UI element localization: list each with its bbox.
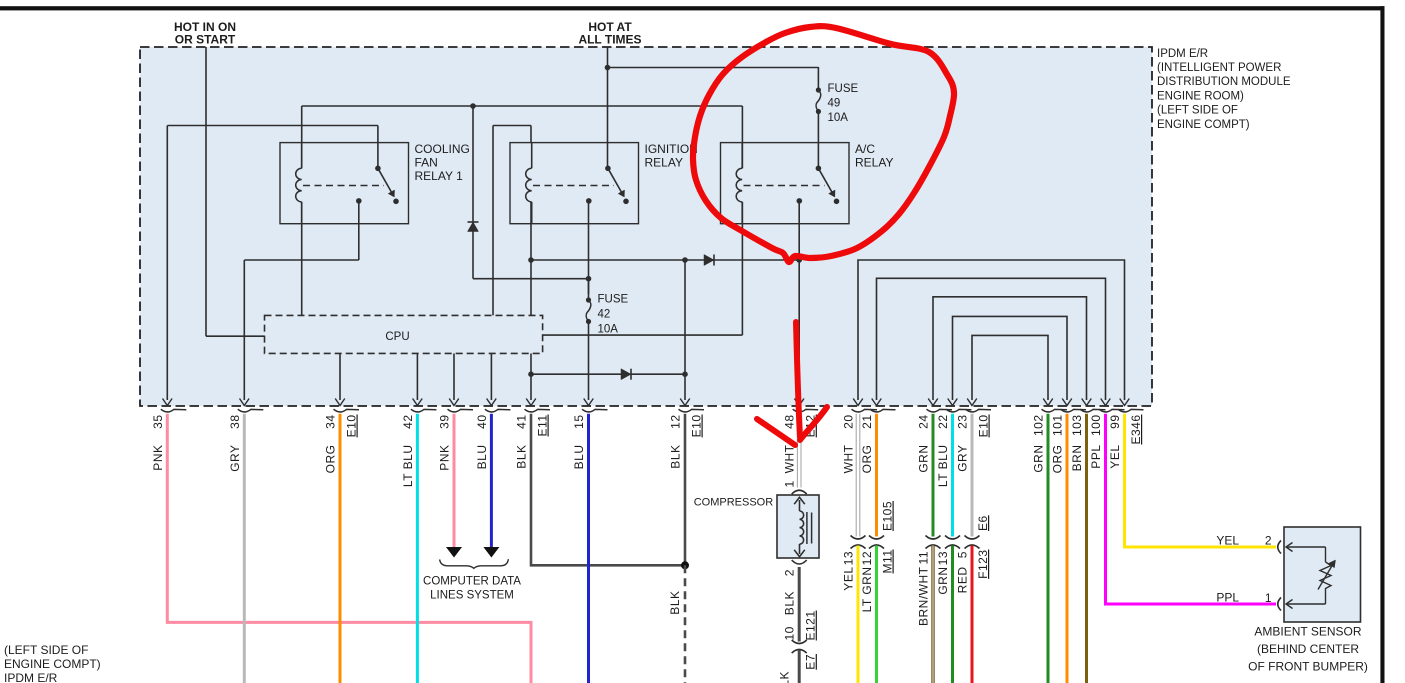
svg-text:YEL: YEL xyxy=(1216,534,1239,548)
svg-text:E11: E11 xyxy=(536,415,550,437)
svg-text:42: 42 xyxy=(401,415,415,429)
svg-text:E10: E10 xyxy=(345,415,359,438)
svg-text:E346: E346 xyxy=(1129,415,1143,445)
svg-text:E10: E10 xyxy=(977,415,991,438)
svg-text:34: 34 xyxy=(324,415,338,429)
svg-text:48: 48 xyxy=(783,415,797,429)
svg-text:GRN: GRN xyxy=(1032,445,1046,473)
svg-text:12: 12 xyxy=(860,551,874,565)
svg-text:10: 10 xyxy=(783,626,797,640)
svg-text:CPU: CPU xyxy=(385,331,409,343)
svg-text:10A: 10A xyxy=(828,112,849,124)
svg-text:RELAY 1: RELAY 1 xyxy=(415,169,464,183)
svg-text:35: 35 xyxy=(151,415,165,429)
svg-text:FUSE: FUSE xyxy=(828,83,859,95)
svg-text:5: 5 xyxy=(956,551,970,558)
svg-text:2: 2 xyxy=(783,569,797,576)
svg-text:DISTRIBUTION MODULE: DISTRIBUTION MODULE xyxy=(1157,76,1291,88)
svg-text:LT GRN: LT GRN xyxy=(860,567,874,613)
svg-text:41: 41 xyxy=(515,415,529,429)
svg-text:E105: E105 xyxy=(881,501,895,531)
svg-text:LT BLU: LT BLU xyxy=(936,445,950,488)
svg-text:23: 23 xyxy=(956,415,970,429)
svg-text:YEL: YEL xyxy=(842,567,856,591)
svg-text:2: 2 xyxy=(1265,534,1272,548)
svg-text:GRY: GRY xyxy=(228,445,242,472)
svg-text:100: 100 xyxy=(1089,415,1103,437)
svg-text:BLU: BLU xyxy=(475,445,489,470)
svg-text:ALL TIMES: ALL TIMES xyxy=(578,33,641,47)
svg-text:GRY: GRY xyxy=(956,445,970,472)
svg-text:F123: F123 xyxy=(976,550,990,579)
svg-text:13: 13 xyxy=(842,551,856,565)
svg-text:ORG: ORG xyxy=(860,445,874,474)
svg-text:ORG: ORG xyxy=(324,445,338,474)
svg-text:FAN: FAN xyxy=(415,156,438,170)
svg-text:21: 21 xyxy=(860,415,874,429)
svg-text:(LEFT SIDE OF: (LEFT SIDE OF xyxy=(4,643,88,657)
svg-text:YEL: YEL xyxy=(1108,445,1122,469)
svg-text:IGNITION: IGNITION xyxy=(645,142,698,156)
svg-text:RELAY: RELAY xyxy=(645,156,683,170)
svg-text:42: 42 xyxy=(598,308,611,320)
svg-text:15: 15 xyxy=(572,415,586,429)
svg-text:FUSE: FUSE xyxy=(598,293,629,305)
svg-text:IPDM E/R: IPDM E/R xyxy=(4,671,58,683)
svg-text:BLK: BLK xyxy=(778,671,792,683)
svg-text:99: 99 xyxy=(1108,415,1122,429)
svg-text:PNK: PNK xyxy=(438,445,452,471)
svg-text:10A: 10A xyxy=(598,323,619,335)
svg-text:ORG: ORG xyxy=(1051,445,1065,474)
svg-text:38: 38 xyxy=(228,415,242,429)
svg-text:PPL: PPL xyxy=(1216,591,1239,605)
svg-text:20: 20 xyxy=(842,415,856,429)
svg-text:GRN: GRN xyxy=(917,445,931,473)
svg-text:PNK: PNK xyxy=(151,445,165,471)
svg-text:WHT: WHT xyxy=(842,444,856,473)
svg-text:E6: E6 xyxy=(976,515,990,531)
svg-text:12: 12 xyxy=(669,415,683,429)
svg-text:(BEHIND CENTER: (BEHIND CENTER xyxy=(1257,642,1359,656)
svg-text:BLK: BLK xyxy=(668,591,682,615)
svg-text:39: 39 xyxy=(438,415,452,429)
svg-text:E10: E10 xyxy=(690,415,704,438)
svg-text:GRN: GRN xyxy=(936,567,950,595)
svg-text:13: 13 xyxy=(936,551,950,565)
svg-text:AMBIENT SENSOR: AMBIENT SENSOR xyxy=(1254,625,1361,639)
svg-text:103: 103 xyxy=(1070,415,1084,437)
svg-text:COMPRESSOR: COMPRESSOR xyxy=(694,496,774,508)
svg-text:22: 22 xyxy=(936,415,950,429)
svg-text:102: 102 xyxy=(1032,415,1046,437)
svg-text:E7: E7 xyxy=(804,654,818,670)
svg-text:COOLING: COOLING xyxy=(415,142,470,156)
svg-text:ENGINE COMPT): ENGINE COMPT) xyxy=(1157,119,1250,131)
svg-text:49: 49 xyxy=(828,98,841,110)
svg-text:BLK: BLK xyxy=(669,445,683,469)
svg-text:(LEFT SIDE OF: (LEFT SIDE OF xyxy=(1157,105,1238,117)
svg-text:ENGINE ROOM): ENGINE ROOM) xyxy=(1157,90,1244,102)
svg-text:A/C: A/C xyxy=(855,142,875,156)
svg-text:ENGINE COMPT): ENGINE COMPT) xyxy=(4,657,101,671)
svg-text:BLU: BLU xyxy=(572,445,586,470)
svg-text:40: 40 xyxy=(475,415,489,429)
svg-text:OF FRONT BUMPER): OF FRONT BUMPER) xyxy=(1248,660,1368,674)
svg-text:E121: E121 xyxy=(804,610,818,640)
svg-text:BRN: BRN xyxy=(1070,445,1084,472)
svg-text:WHT: WHT xyxy=(783,444,797,473)
svg-text:LINES SYSTEM: LINES SYSTEM xyxy=(430,589,514,601)
svg-text:LT BLU: LT BLU xyxy=(401,445,415,488)
svg-text:(INTELLIGENT POWER: (INTELLIGENT POWER xyxy=(1157,62,1281,74)
svg-text:IPDM E/R: IPDM E/R xyxy=(1157,48,1208,60)
svg-text:1: 1 xyxy=(1265,591,1272,605)
svg-text:101: 101 xyxy=(1051,415,1065,437)
svg-text:24: 24 xyxy=(917,415,931,429)
svg-text:BLK: BLK xyxy=(515,445,529,469)
svg-text:COMPUTER DATA: COMPUTER DATA xyxy=(423,575,521,587)
svg-text:OR START: OR START xyxy=(175,33,236,47)
svg-text:BLK: BLK xyxy=(783,591,797,615)
svg-text:1: 1 xyxy=(783,480,797,487)
svg-text:M11: M11 xyxy=(881,550,895,574)
svg-text:RELAY: RELAY xyxy=(855,156,893,170)
svg-text:PPL: PPL xyxy=(1089,445,1103,469)
svg-text:BRN/WHT: BRN/WHT xyxy=(917,566,931,626)
svg-text:RED: RED xyxy=(956,567,970,594)
svg-text:11: 11 xyxy=(917,551,931,564)
